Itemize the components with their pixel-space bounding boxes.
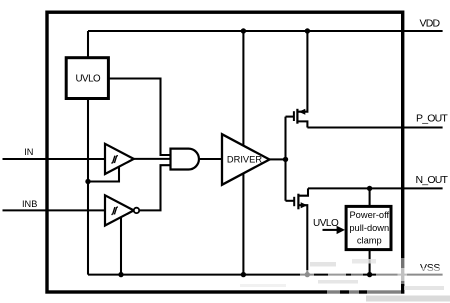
junction dot INB buffer pin on VSS [118,272,123,277]
transistor Q1 PMOS gate bar [293,111,295,121]
svg-text:P_OUT: P_OUT [416,112,448,124]
transistor Q1 PMOS drain lead to P_OUT [297,121,307,127]
svg-text:clamp: clamp [357,236,382,246]
wire UVLO output to AND gate top input [110,79,171,156]
wire N_OUT to clamp block [369,188,371,206]
svg-text:Power-off: Power-off [349,210,389,220]
junction dot clamp on VSS [367,272,372,277]
wire buffer A1 output to AND gate middle input [134,158,171,160]
svg-text:VDD: VDD [420,17,441,29]
transistor Q1 PMOS channel bar [296,109,298,124]
wire driver output to gate node [270,158,286,160]
IC outer boundary box [47,12,403,292]
transistor Q2 NMOS gate lead [286,200,295,202]
wire P_OUT [307,126,442,128]
wire inverter A2 output to AND gate bottom input [139,165,170,210]
junction dot gate node [283,157,288,162]
wire clamp block to VSS [369,250,371,275]
transistor Q2 NMOS source lead to VSS [298,205,307,274]
wire IN input [3,158,106,160]
AND gate G1 [171,149,199,170]
hysteresis symbol in inverter A2 [111,207,118,214]
svg-text:UVLO: UVLO [313,218,339,229]
junction dot driver supply on VDD [241,28,246,33]
transistor Q1 PMOS source arrow [299,109,306,115]
junction dot clamp tap on N_OUT [367,186,372,191]
transistor Q2 NMOS channel bar [297,194,299,210]
driver block U2 triangle [222,134,270,185]
wire inverter A2 bottom pin to VSS rail [120,217,122,275]
power-off pull-down clamp block U3 [346,206,391,249]
transistor Q2 NMOS drain lead to N_OUT [298,188,308,195]
wire VSS rail [88,274,443,276]
transistor Q1 PMOS source lead to VDD [297,31,307,112]
junction dot driver return on VSS [241,272,246,277]
junction dot on UVLO-VSS line [85,179,90,184]
UVLO control arrow into clamp [323,229,339,231]
wire gate node vertical to both MOSFET gates [284,117,286,201]
svg-text:UVLO: UVLO [75,74,101,85]
junction dot PMOS source on VDD [305,28,310,33]
transistor Q2 NMOS source arrow [301,202,308,208]
wire UVLO bottom to VSS rail [87,99,89,275]
svg-text:IN: IN [24,147,33,157]
schmitt buffer A1 (IN) [105,144,134,174]
wire INB input [3,209,106,211]
wire driver VSS return [242,173,244,274]
inverter A2 output bubble [134,208,139,213]
svg-text:INB: INB [22,199,37,209]
hysteresis symbol in buffer A1 [111,156,118,163]
wire branch to IN buffer bottom pin [88,167,119,182]
UVLO block U1 [66,58,108,99]
wire VDD rail [88,30,443,32]
transistor Q1 PMOS gate lead [286,116,294,118]
svg-text:N_OUT: N_OUT [416,174,449,186]
transistor Q2 NMOS gate bar [293,197,295,206]
svg-text:pull-down: pull-down [349,223,389,233]
svg-text:DRIVER: DRIVER [227,154,262,164]
wire N_OUT [308,187,443,189]
schmitt inverter A2 (INB) [105,195,134,225]
wire UVLO top stub to VDD [87,31,89,57]
wire AND gate output to driver input [199,158,222,160]
junction dot NMOS source on VSS [305,272,310,277]
wire driver VDD supply [242,31,244,146]
watermark overlay bottom right [240,258,450,302]
